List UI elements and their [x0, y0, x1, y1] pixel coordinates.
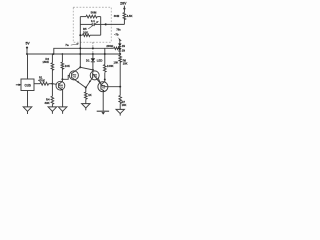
node R5 left junction [79, 34, 81, 36]
wire pair collector link [80, 67, 93, 70]
light arrow into CdS [16, 84, 21, 86]
svg-text:CdS: CdS [25, 84, 31, 88]
resistor 100K [104, 48, 114, 79]
svg-text:150K: 150K [42, 60, 49, 64]
resistor R6 10K [114, 54, 128, 87]
wire main lower rail [27, 53, 120, 55]
svg-text:1K: 1K [88, 93, 92, 97]
svg-text:470K: 470K [38, 79, 45, 83]
svg-text:1N: 1N [122, 50, 125, 53]
svg-text:~7b: ~7b [114, 33, 119, 37]
diode D2 [118, 41, 125, 48]
svg-text:4.5K: 4.5K [127, 14, 133, 18]
node feedback junction [119, 86, 121, 88]
svg-text:28V: 28V [120, 1, 127, 5]
ground under 1K [82, 104, 90, 111]
wire 5V down to rail [26, 48, 28, 54]
wire left vertical of shield network [79, 17, 81, 68]
annotation 7a with arrow [65, 43, 79, 47]
resistor 200 ohm [106, 44, 119, 50]
node D1 on rail [92, 53, 94, 55]
svg-text:50M: 50M [91, 10, 97, 14]
transistor Q1 [56, 79, 65, 90]
svg-text:10K: 10K [65, 64, 70, 68]
svg-text:LED: LED [97, 59, 103, 63]
resistor R7 10K [119, 87, 127, 110]
node trimmer output junction [105, 23, 107, 25]
node stub crossing upper wire [92, 47, 94, 49]
svg-text:D1: D1 [86, 59, 90, 63]
node diode chain on rail [119, 53, 121, 55]
ground chassis under Q5 [97, 111, 109, 114]
node 5V terminal [26, 41, 31, 48]
node Q2 collector junction [79, 66, 81, 68]
svg-text:30M: 30M [114, 14, 120, 18]
svg-text:10K: 10K [114, 60, 119, 64]
svg-text:39K: 39K [45, 101, 50, 105]
svg-text:5V: 5V [26, 41, 31, 45]
ground under CdS [23, 107, 32, 114]
ground under R4 [48, 107, 57, 114]
resistor R2 150K [42, 54, 53, 84]
resistor R3 10K collector load [61, 53, 70, 79]
photocell CdS [21, 79, 34, 91]
svg-text:200Ω: 200Ω [106, 44, 114, 48]
svg-text:10K: 10K [122, 103, 127, 107]
wire shield network to 28V branch [106, 23, 125, 25]
node rail jog junction [53, 53, 55, 55]
transistor Q5 output [98, 78, 120, 91]
trimmer capacitor 0.4 [80, 19, 105, 29]
node left vertical on rail [79, 53, 81, 55]
wire base junction to Q1 base [52, 83, 58, 86]
svg-text:10K: 10K [123, 61, 128, 65]
diode D1 LED [86, 54, 102, 70]
transistor Q2 left of pair [69, 67, 85, 87]
node base junction [52, 83, 54, 85]
resistor 50M [80, 10, 100, 18]
node Q5 collector junction [104, 79, 106, 81]
svg-text:1N: 1N [122, 45, 125, 48]
wire Q5 emitter down [102, 92, 104, 111]
ground under Q1 [58, 107, 67, 114]
wire Q1 emitter to ground [62, 90, 64, 107]
node rail tap junction [26, 53, 28, 55]
svg-text:78c: 78c [116, 27, 121, 31]
svg-text:7a: 7a [65, 43, 69, 47]
resistor R1 470K [34, 76, 52, 86]
annotation 7b right [114, 27, 121, 40]
ground under R7 [116, 109, 124, 115]
node 100K on rail [104, 53, 106, 55]
node D1 to pair collectors [92, 69, 94, 71]
node Q1 collector junction [62, 78, 64, 80]
wire CdS to ground [27, 91, 29, 107]
svg-text:0.4: 0.4 [91, 19, 95, 23]
resistor 4.5K [114, 9, 133, 25]
resistor R4 39K [45, 84, 54, 107]
wire collector junction to Q2 base [62, 75, 71, 79]
wire 50M right corner down [100, 17, 102, 36]
transistor Q3 right of pair [86, 70, 101, 88]
wire rail to CdS cell [27, 54, 29, 79]
node left vertical on upper wire [79, 47, 81, 49]
diode D3 [118, 46, 125, 54]
wire jog up to upper feed wire [54, 48, 114, 54]
node emitter common [85, 87, 87, 89]
shield dashed box [73, 7, 111, 42]
resistor 1K tail [85, 88, 92, 104]
svg-text:100K: 100K [107, 64, 114, 68]
node 28V terminal [120, 1, 127, 9]
resistor R5 10K in shield [80, 27, 100, 36]
wire shield stub to rail (dashed) [92, 42, 94, 54]
